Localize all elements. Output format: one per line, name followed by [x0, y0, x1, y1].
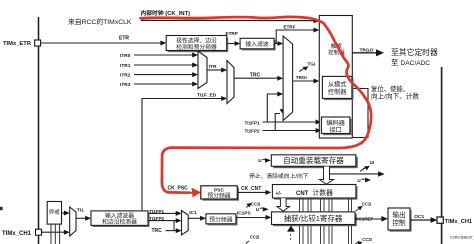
svg-text:UI: UI — [370, 160, 374, 165]
red annotation curve — [141, 17, 372, 193]
svg-text:TI1: TI1 — [77, 207, 84, 213]
mux M2 (TRC select) — [227, 61, 234, 104]
box: 编码器接口 — [323, 119, 352, 136]
bus lines CNT to bottom — [300, 198, 352, 244]
svg-text:输入滤波器: 输入滤波器 — [105, 212, 134, 220]
wire TI1FP1 branch up to trigger mux — [267, 94, 278, 122]
wire: long arrow right — [330, 173, 379, 175]
svg-text:CC2I: CC2I — [362, 237, 372, 242]
svg-text:ITR1: ITR1 — [120, 63, 131, 69]
wire TI2FP2 branch up to trigger mux — [275, 114, 280, 131]
box: 从模式控制器 — [324, 78, 354, 100]
svg-text:ETR: ETR — [119, 36, 129, 42]
svg-text:TI1FP1: TI1FP1 — [245, 121, 261, 126]
box: 输入滤波器和边沿检测器 — [93, 213, 150, 228]
up arrow into capture bottom — [287, 226, 295, 232]
mux M3 (trigger TRGI) — [283, 36, 293, 121]
svg-text:CC2I: CC2I — [250, 234, 260, 239]
box: CNT 计数器 — [274, 186, 358, 200]
svg-text:TI2FP2: TI2FP2 — [245, 129, 261, 134]
svg-text:接口: 接口 — [330, 126, 342, 134]
svg-text:CNT: CNT — [296, 191, 309, 197]
svg-text:CC1I: CC1I — [251, 202, 261, 207]
pin TIMx_CH1 (right) — [437, 217, 443, 223]
svg-text:和边沿检测器: 和边沿检测器 — [102, 218, 137, 226]
svg-text:至 DAC/ADC: 至 DAC/ADC — [391, 58, 430, 67]
box: PSC 预分频器 — [203, 188, 240, 201]
box: 预分频器 (IC1) — [208, 215, 238, 225]
svg-text:输出: 输出 — [392, 210, 405, 219]
svg-text:TGI: TGI — [308, 61, 316, 66]
svg-text:OC1REF: OC1REF — [355, 216, 374, 221]
wire OC1REF to output ctrl — [355, 218, 382, 220]
svg-text:检测和预分频器: 检测和预分频器 — [176, 43, 217, 51]
svg-text:编码器: 编码器 — [326, 119, 345, 127]
svg-text:TRGI: TRGI — [296, 75, 307, 80]
svg-text:TIMx_ETR: TIMx_ETR — [3, 41, 32, 47]
wire TI2FP2 to encoder — [263, 130, 317, 132]
wire TI1FP1 to encoder — [263, 121, 317, 123]
svg-text:TRC: TRC — [250, 72, 261, 78]
box: 输出控制 — [390, 210, 412, 232]
svg-text:TRC: TRC — [152, 228, 163, 234]
svg-text:输入滤波: 输入滤波 — [245, 40, 268, 48]
event CC1I left — [246, 205, 249, 208]
svg-text:CC1I: CC1I — [362, 202, 372, 207]
box: 极性选择、边沿检测和预分频器 — [168, 37, 229, 52]
wire: left chip boundary vertical — [38, 17, 40, 244]
svg-text:异或: 异或 — [49, 208, 60, 216]
svg-text:内部时钟 (CK_INT): 内部时钟 (CK_INT) — [141, 9, 191, 17]
box: trigger controller 触发控制器 — [319, 16, 352, 139]
svg-text:计数器: 计数器 — [313, 188, 334, 197]
wire ETRF to mux3 — [274, 43, 278, 45]
svg-text:至其它定时器: 至其它定时器 — [391, 47, 438, 57]
svg-text:ETRF: ETRF — [284, 24, 296, 29]
svg-text:从模式: 从模式 — [328, 80, 347, 88]
svg-text:ITR3: ITR3 — [120, 82, 131, 88]
svg-text:捕获/比较1寄存器: 捕获/比较1寄存器 — [284, 213, 343, 223]
svg-text:ITR2: ITR2 — [120, 73, 131, 79]
svg-text:TI1F_ED: TI1F_ED — [197, 92, 217, 98]
svg-text:CK_CNT: CK_CNT — [241, 186, 261, 192]
mux M4 (TI1 select) — [70, 207, 76, 236]
hollow arrow ARR to CNT — [320, 167, 334, 185]
wire: right chip boundary vertical — [441, 67, 443, 244]
svg-text:向上/向下、计数: 向上/向下、计数 — [371, 91, 419, 100]
box: 异或 XOR — [47, 202, 61, 225]
svg-text:IC1: IC1 — [189, 210, 197, 216]
svg-text:控制器: 控制器 — [328, 88, 347, 96]
svg-text:CK_PSC: CK_PSC — [168, 185, 189, 191]
svg-text:ETRP: ETRP — [226, 31, 238, 36]
svg-text:自动重装载寄存器: 自动重装载寄存器 — [283, 155, 344, 165]
svg-text:复位、使能、: 复位、使能、 — [371, 84, 409, 93]
wire: slave mode ctrl output bracket — [352, 89, 368, 138]
red arrowhead at PSC — [192, 188, 201, 198]
svg-text:TIMx_CH1: TIMx_CH1 — [2, 231, 32, 237]
wire: CK_INT to trigger controller — [141, 19, 314, 21]
stray mark left edge — [0, 207, 3, 210]
svg-text:预分频器: 预分频器 — [207, 191, 230, 199]
svg-text:控制: 控制 — [392, 218, 406, 227]
svg-text:OC1: OC1 — [414, 214, 424, 220]
wires into IC1 mux — [148, 212, 176, 214]
svg-text:ITR0: ITR0 — [120, 53, 131, 59]
box: 输入滤波 — [242, 40, 276, 51]
svg-text:预分频器: 预分频器 — [209, 216, 232, 224]
mux M1 (ITR select) — [198, 51, 207, 89]
svg-text:来自RCC的TIMxCLK: 来自RCC的TIMxCLK — [68, 17, 132, 26]
box: 捕获/比较1寄存器 — [273, 214, 357, 227]
wire XOR to mux — [62, 212, 65, 214]
wire TRC drop stub — [173, 221, 175, 231]
svg-text:TIMx_CH1: TIMx_CH1 — [445, 219, 473, 225]
svg-text:CSDN @BEST_S: CSDN @BEST_S — [450, 236, 474, 240]
labels CC2I — [246, 241, 249, 244]
XOR input legs — [50, 224, 52, 244]
wire CH1 to mux — [42, 231, 65, 233]
svg-text:ITR: ITR — [209, 64, 217, 70]
hollow arrow CNT to capture reg — [277, 198, 290, 211]
svg-text:停止、清除或向上/向下: 停止、清除或向上/向下 — [249, 172, 309, 180]
svg-text:极性选择、边沿: 极性选择、边沿 — [176, 37, 217, 45]
svg-text:IC1PS: IC1PS — [237, 211, 252, 217]
box: 自动重装载寄存器 — [273, 157, 358, 169]
svg-text:+/-: +/- — [276, 191, 282, 197]
mux M5 (IC1 select) — [182, 211, 189, 236]
